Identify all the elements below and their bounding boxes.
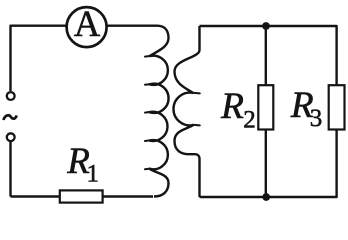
wire: left vertical top segment + top wire to ammeter (11, 26, 67, 91)
svg-text:A: A (74, 3, 101, 44)
wire: bottom wire of left loop (11, 195, 154, 197)
AC source terminal (top circle) (7, 92, 15, 100)
wire: right loop (top, right side, bottom) (200, 26, 337, 197)
wire: left vertical bottom segment (9, 142, 11, 197)
transformer secondary coil (173, 26, 199, 197)
transformer primary coil (107, 26, 169, 197)
svg-text:R: R (220, 86, 244, 127)
node: bottom junction dot (262, 193, 270, 201)
resistor R1 box (60, 190, 103, 202)
ammeter A (67, 7, 107, 47)
coil cusp tails (primary) (145, 56, 150, 169)
wire: R2 branch top (265, 26, 267, 86)
wire: R2 branch bottom (265, 130, 267, 198)
node: top junction dot (262, 22, 270, 30)
svg-text:1: 1 (87, 161, 100, 188)
coil cusp tails (secondary) (193, 93, 200, 126)
resistor R2 box (258, 85, 273, 129)
AC source terminal (bottom circle) (7, 133, 15, 141)
resistor R3 box (329, 85, 345, 129)
svg-text:3: 3 (310, 105, 323, 132)
AC source tilde symbol (3, 115, 16, 120)
svg-text:2: 2 (243, 106, 256, 133)
